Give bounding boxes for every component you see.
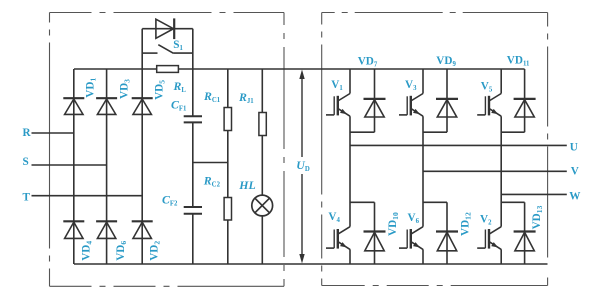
svg-text:HL: HL bbox=[238, 178, 255, 192]
svg-text:W: W bbox=[569, 190, 581, 202]
svg-text:R: R bbox=[23, 127, 32, 139]
svg-text:T: T bbox=[23, 192, 31, 204]
svg-text:U: U bbox=[570, 142, 578, 154]
svg-text:V: V bbox=[571, 166, 579, 178]
svg-text:S: S bbox=[23, 156, 29, 168]
